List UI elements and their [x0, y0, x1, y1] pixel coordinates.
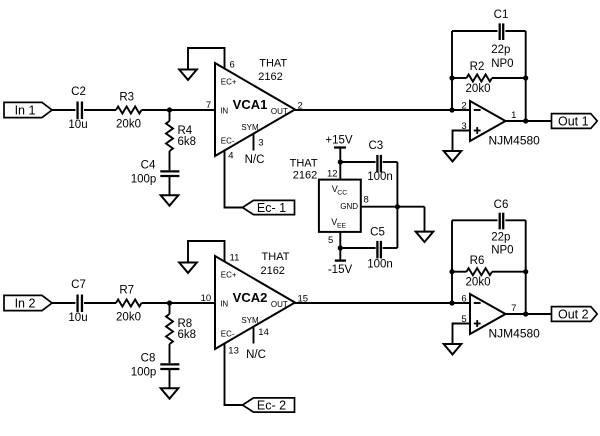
wire cap to series resistor	[84, 109, 116, 111]
svg-text:100p: 100p	[131, 173, 157, 185]
svg-text:100p: 100p	[131, 366, 157, 378]
wire feedback top right	[505, 30, 525, 32]
label THAT 2162 power	[290, 157, 318, 181]
port Out 1	[552, 114, 598, 129]
ground	[179, 263, 197, 273]
svg-text:13: 13	[228, 345, 239, 356]
wire shunt cap to ground	[169, 176, 171, 196]
svg-text:R2: R2	[470, 61, 485, 73]
ground	[444, 151, 462, 161]
wire input to coupling cap	[52, 302, 75, 304]
capacitor C3 100n	[367, 140, 393, 183]
wire feedback left vertical	[451, 220, 453, 303]
svg-text:SYM: SYM	[241, 123, 259, 132]
node junction ground rail	[395, 204, 400, 209]
svg-text:3: 3	[258, 137, 263, 148]
svg-text:C5: C5	[370, 226, 385, 238]
svg-text:2162: 2162	[260, 265, 284, 277]
svg-text:-15V: -15V	[328, 264, 353, 276]
resistor R4 6k8	[166, 110, 196, 151]
svg-text:In 1: In 1	[15, 103, 36, 117]
wire EC- pin to control tag	[225, 150, 243, 208]
svg-text:8: 8	[364, 195, 369, 206]
node junction op-amp output	[523, 311, 528, 316]
capacitor C6 22p	[491, 199, 513, 256]
svg-text:6: 6	[230, 60, 235, 71]
wire cap to series resistor	[84, 302, 116, 304]
svg-text:THAT: THAT	[262, 251, 290, 263]
wire feedback left vertical	[451, 31, 453, 110]
svg-text:R6: R6	[470, 255, 485, 267]
wire resistor to shunt cap	[169, 151, 171, 170]
svg-text:7: 7	[511, 303, 516, 314]
resistor R2 20k0	[452, 61, 526, 95]
svg-text:EC-: EC-	[221, 136, 235, 145]
port Ec- 1	[243, 200, 295, 215]
ground	[179, 70, 197, 80]
svg-text:12: 12	[327, 168, 338, 179]
svg-text:100n: 100n	[367, 171, 393, 183]
pin stub SYM	[253, 326, 255, 344]
svg-text:10: 10	[201, 293, 212, 304]
wire VCC rail to C3	[340, 161, 375, 163]
label THAT 2162 for VCA1	[258, 57, 287, 83]
svg-text:22p: 22p	[491, 231, 510, 243]
wire VEE rail to C5	[340, 247, 375, 249]
svg-text:IN: IN	[220, 106, 228, 115]
op-amp U2A NJM4580	[461, 100, 540, 147]
resistor R3 20k0	[116, 91, 142, 130]
capacitor C5 100n	[367, 226, 393, 270]
svg-text:C3: C3	[368, 140, 383, 152]
wire input to coupling cap	[52, 109, 75, 111]
svg-text:N/C: N/C	[245, 154, 265, 166]
svg-text:EC+: EC+	[221, 77, 237, 86]
ground	[161, 388, 179, 398]
svg-text:EE: EE	[337, 222, 347, 229]
svg-text:2162: 2162	[258, 71, 282, 83]
svg-text:GND: GND	[340, 202, 358, 211]
svg-text:100n: 100n	[367, 258, 393, 270]
svg-text:SYM: SYM	[241, 316, 259, 325]
ground	[444, 344, 462, 354]
svg-text:VCA2: VCA2	[233, 290, 268, 305]
inverting input minus sign	[474, 302, 481, 304]
node junction feedback left	[449, 75, 454, 80]
ground	[161, 195, 179, 205]
svg-text:Out 2: Out 2	[558, 307, 589, 321]
svg-text:14: 14	[258, 327, 269, 338]
node junction feedback right	[523, 75, 528, 80]
capacitor C1 22p	[491, 9, 513, 70]
svg-text:C8: C8	[141, 353, 156, 365]
svg-text:THAT: THAT	[259, 57, 287, 69]
power +15V	[325, 134, 353, 147]
svg-text:C7: C7	[71, 279, 86, 291]
wire ground drop	[424, 207, 426, 232]
svg-text:Out 1: Out 1	[558, 114, 589, 128]
svg-text:IN: IN	[220, 299, 228, 308]
svg-text:6: 6	[461, 293, 466, 304]
svg-text:EC-: EC-	[221, 329, 235, 338]
wire non-inverting input to ground	[453, 324, 471, 345]
node junction feedback left	[449, 269, 454, 274]
ground	[416, 232, 434, 242]
node junction at inverting input	[449, 107, 454, 112]
wire VCA OUT to op-amp	[295, 109, 470, 111]
svg-text:R7: R7	[119, 284, 134, 296]
svg-text:20k0: 20k0	[116, 118, 141, 130]
wire op-amp output to port	[506, 313, 552, 315]
label THAT 2162 for VCA2	[260, 251, 289, 277]
svg-text:NJM4580: NJM4580	[489, 134, 541, 148]
resistor R7 20k0	[116, 284, 142, 323]
svg-text:5: 5	[328, 235, 333, 246]
port In 1	[4, 102, 52, 117]
wire feedback top left	[452, 30, 498, 32]
svg-text:1: 1	[511, 110, 516, 121]
svg-text:20k0: 20k0	[116, 311, 141, 323]
inverting input minus sign	[474, 109, 481, 111]
svg-text:Ec- 2: Ec- 2	[257, 398, 286, 412]
svg-text:+15V: +15V	[325, 134, 353, 146]
wire VCA OUT to op-amp	[295, 302, 470, 304]
wire feedback right vertical	[525, 31, 527, 121]
wire VEE pin 5	[339, 232, 341, 248]
wire resistor to VCA IN	[142, 109, 216, 111]
svg-text:2162: 2162	[293, 169, 317, 181]
svg-text:6k8: 6k8	[178, 136, 197, 148]
node junction input divider	[167, 300, 172, 305]
svg-text:C4: C4	[141, 160, 156, 172]
pin 5 label	[328, 235, 333, 246]
port Ec- 2	[243, 398, 295, 413]
node junction input divider	[167, 107, 172, 112]
port Out 2	[552, 307, 598, 322]
svg-text:4: 4	[228, 150, 233, 161]
svg-text:VCA1: VCA1	[233, 97, 268, 112]
wire feedback right vertical	[525, 220, 527, 314]
wire EC- pin to control tag	[225, 343, 243, 405]
svg-text:NP0: NP0	[491, 58, 513, 70]
svg-text:20k0: 20k0	[466, 83, 491, 95]
wire non-inverting input to ground	[453, 131, 471, 152]
svg-text:EC+: EC+	[221, 270, 237, 279]
svg-text:OUT: OUT	[271, 107, 288, 116]
wire feedback top left	[452, 219, 498, 221]
svg-text:NJM4580: NJM4580	[489, 327, 541, 341]
power pins box THAT 2162	[319, 180, 361, 232]
node junction VCC rail	[338, 159, 343, 164]
wire C3 to ground rail	[383, 161, 398, 163]
wire decoupling right vertical	[396, 162, 398, 248]
svg-text:NP0: NP0	[491, 244, 513, 256]
svg-text:N/C: N/C	[246, 349, 266, 361]
VCA VCA1 THAT 2162	[206, 60, 303, 167]
wire resistor to VCA IN	[142, 302, 216, 304]
capacitor C8 100p	[131, 353, 180, 379]
node junction op-amp output	[523, 118, 528, 123]
svg-text:6k8: 6k8	[178, 329, 197, 341]
svg-text:OUT: OUT	[271, 300, 288, 309]
svg-text:22p: 22p	[491, 44, 510, 56]
capacitor C4 100p	[131, 160, 180, 186]
wire shunt cap to ground	[169, 369, 171, 389]
wire EC+ to ground	[188, 241, 225, 263]
pin 12 label	[327, 168, 338, 179]
svg-text:C1: C1	[494, 9, 509, 21]
node junction feedback right	[523, 269, 528, 274]
svg-text:11: 11	[230, 253, 240, 264]
svg-text:THAT: THAT	[290, 157, 318, 169]
capacitor C7 10u	[68, 279, 87, 324]
wire +15V to VCC pin 12	[339, 148, 341, 181]
wire resistor to shunt cap	[169, 344, 171, 363]
capacitor C2 10u	[68, 86, 87, 131]
svg-text:C2: C2	[71, 86, 86, 98]
wire C5 to ground rail	[383, 247, 398, 249]
port In 2	[4, 295, 52, 310]
non-inverting input plus sign	[474, 323, 481, 325]
resistor R8 6k8	[166, 303, 196, 344]
pin 8 label	[364, 195, 369, 206]
pin stub SYM	[253, 133, 255, 151]
wire EC+ to ground	[188, 48, 225, 70]
wire GND pin 8	[361, 206, 425, 208]
svg-text:C6: C6	[494, 199, 509, 211]
svg-text:CC: CC	[337, 189, 347, 196]
svg-text:7: 7	[206, 100, 211, 111]
svg-text:10u: 10u	[68, 312, 87, 324]
resistor R6 20k0	[452, 255, 526, 289]
svg-text:Ec- 1: Ec- 1	[257, 201, 286, 215]
power -15V	[328, 248, 353, 276]
node junction VEE rail	[338, 245, 343, 250]
svg-text:20k0: 20k0	[466, 277, 491, 289]
VCA VCA2 THAT 2162	[201, 253, 308, 361]
svg-text:10u: 10u	[68, 119, 87, 131]
svg-text:R3: R3	[119, 91, 134, 103]
wire feedback top right	[505, 219, 525, 221]
non-inverting input plus sign	[474, 130, 481, 132]
op-amp U2B NJM4580	[461, 293, 540, 340]
node junction at inverting input	[449, 300, 454, 305]
svg-text:In 2: In 2	[15, 296, 36, 310]
wire op-amp output to port	[506, 120, 552, 122]
svg-text:2: 2	[461, 100, 466, 111]
